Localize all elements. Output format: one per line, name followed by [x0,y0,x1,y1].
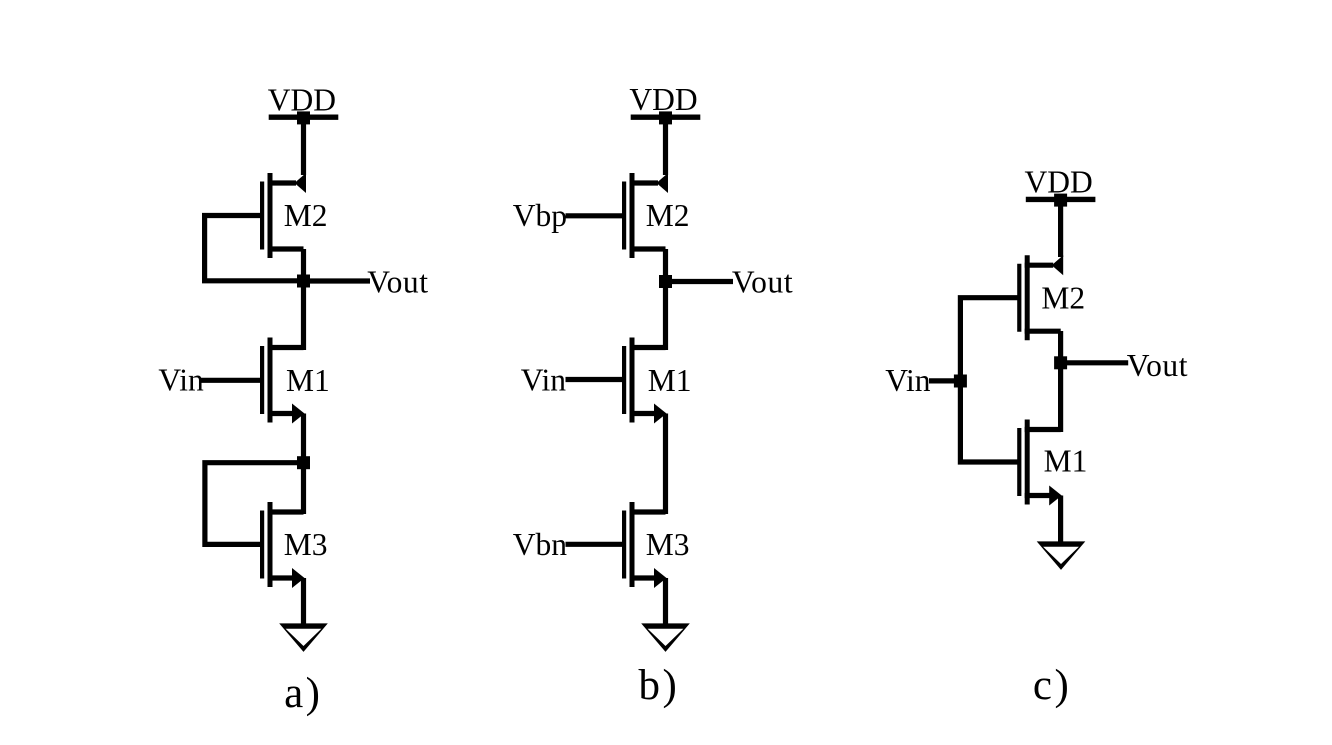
svg-text:Vbp: Vbp [513,198,567,233]
svg-text:a): a) [284,670,322,717]
svg-text:M2: M2 [1041,280,1085,315]
svg-text:Vout: Vout [732,265,793,300]
svg-text:Vbn: Vbn [513,527,567,562]
svg-text:Vin: Vin [885,363,931,398]
svg-text:M2: M2 [284,198,328,233]
svg-text:M2: M2 [646,198,690,233]
svg-text:b): b) [639,662,680,709]
svg-text:Vin: Vin [521,362,567,397]
svg-text:c): c) [1033,662,1071,709]
svg-text:M1: M1 [648,363,692,398]
svg-text:M1: M1 [286,363,330,398]
svg-text:M3: M3 [284,527,328,562]
svg-text:Vout: Vout [1127,348,1188,383]
svg-text:Vin: Vin [158,362,204,397]
svg-text:Vout: Vout [367,264,428,299]
svg-text:M3: M3 [646,527,690,562]
svg-text:M1: M1 [1044,444,1088,479]
